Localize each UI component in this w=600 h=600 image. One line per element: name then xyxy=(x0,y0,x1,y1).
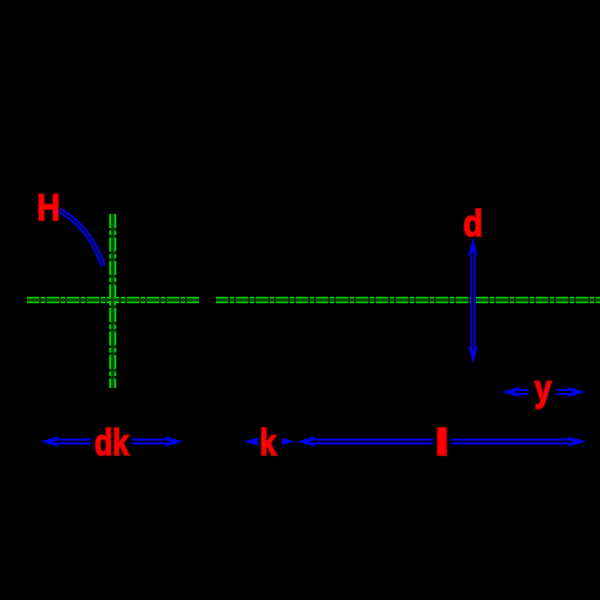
svg-text:l: l xyxy=(435,422,450,463)
svg-text:d: d xyxy=(463,203,483,244)
svg-text:H: H xyxy=(37,187,60,228)
svg-text:dk: dk xyxy=(94,422,129,463)
svg-text:k: k xyxy=(260,422,277,463)
svg-text:y: y xyxy=(535,368,552,409)
